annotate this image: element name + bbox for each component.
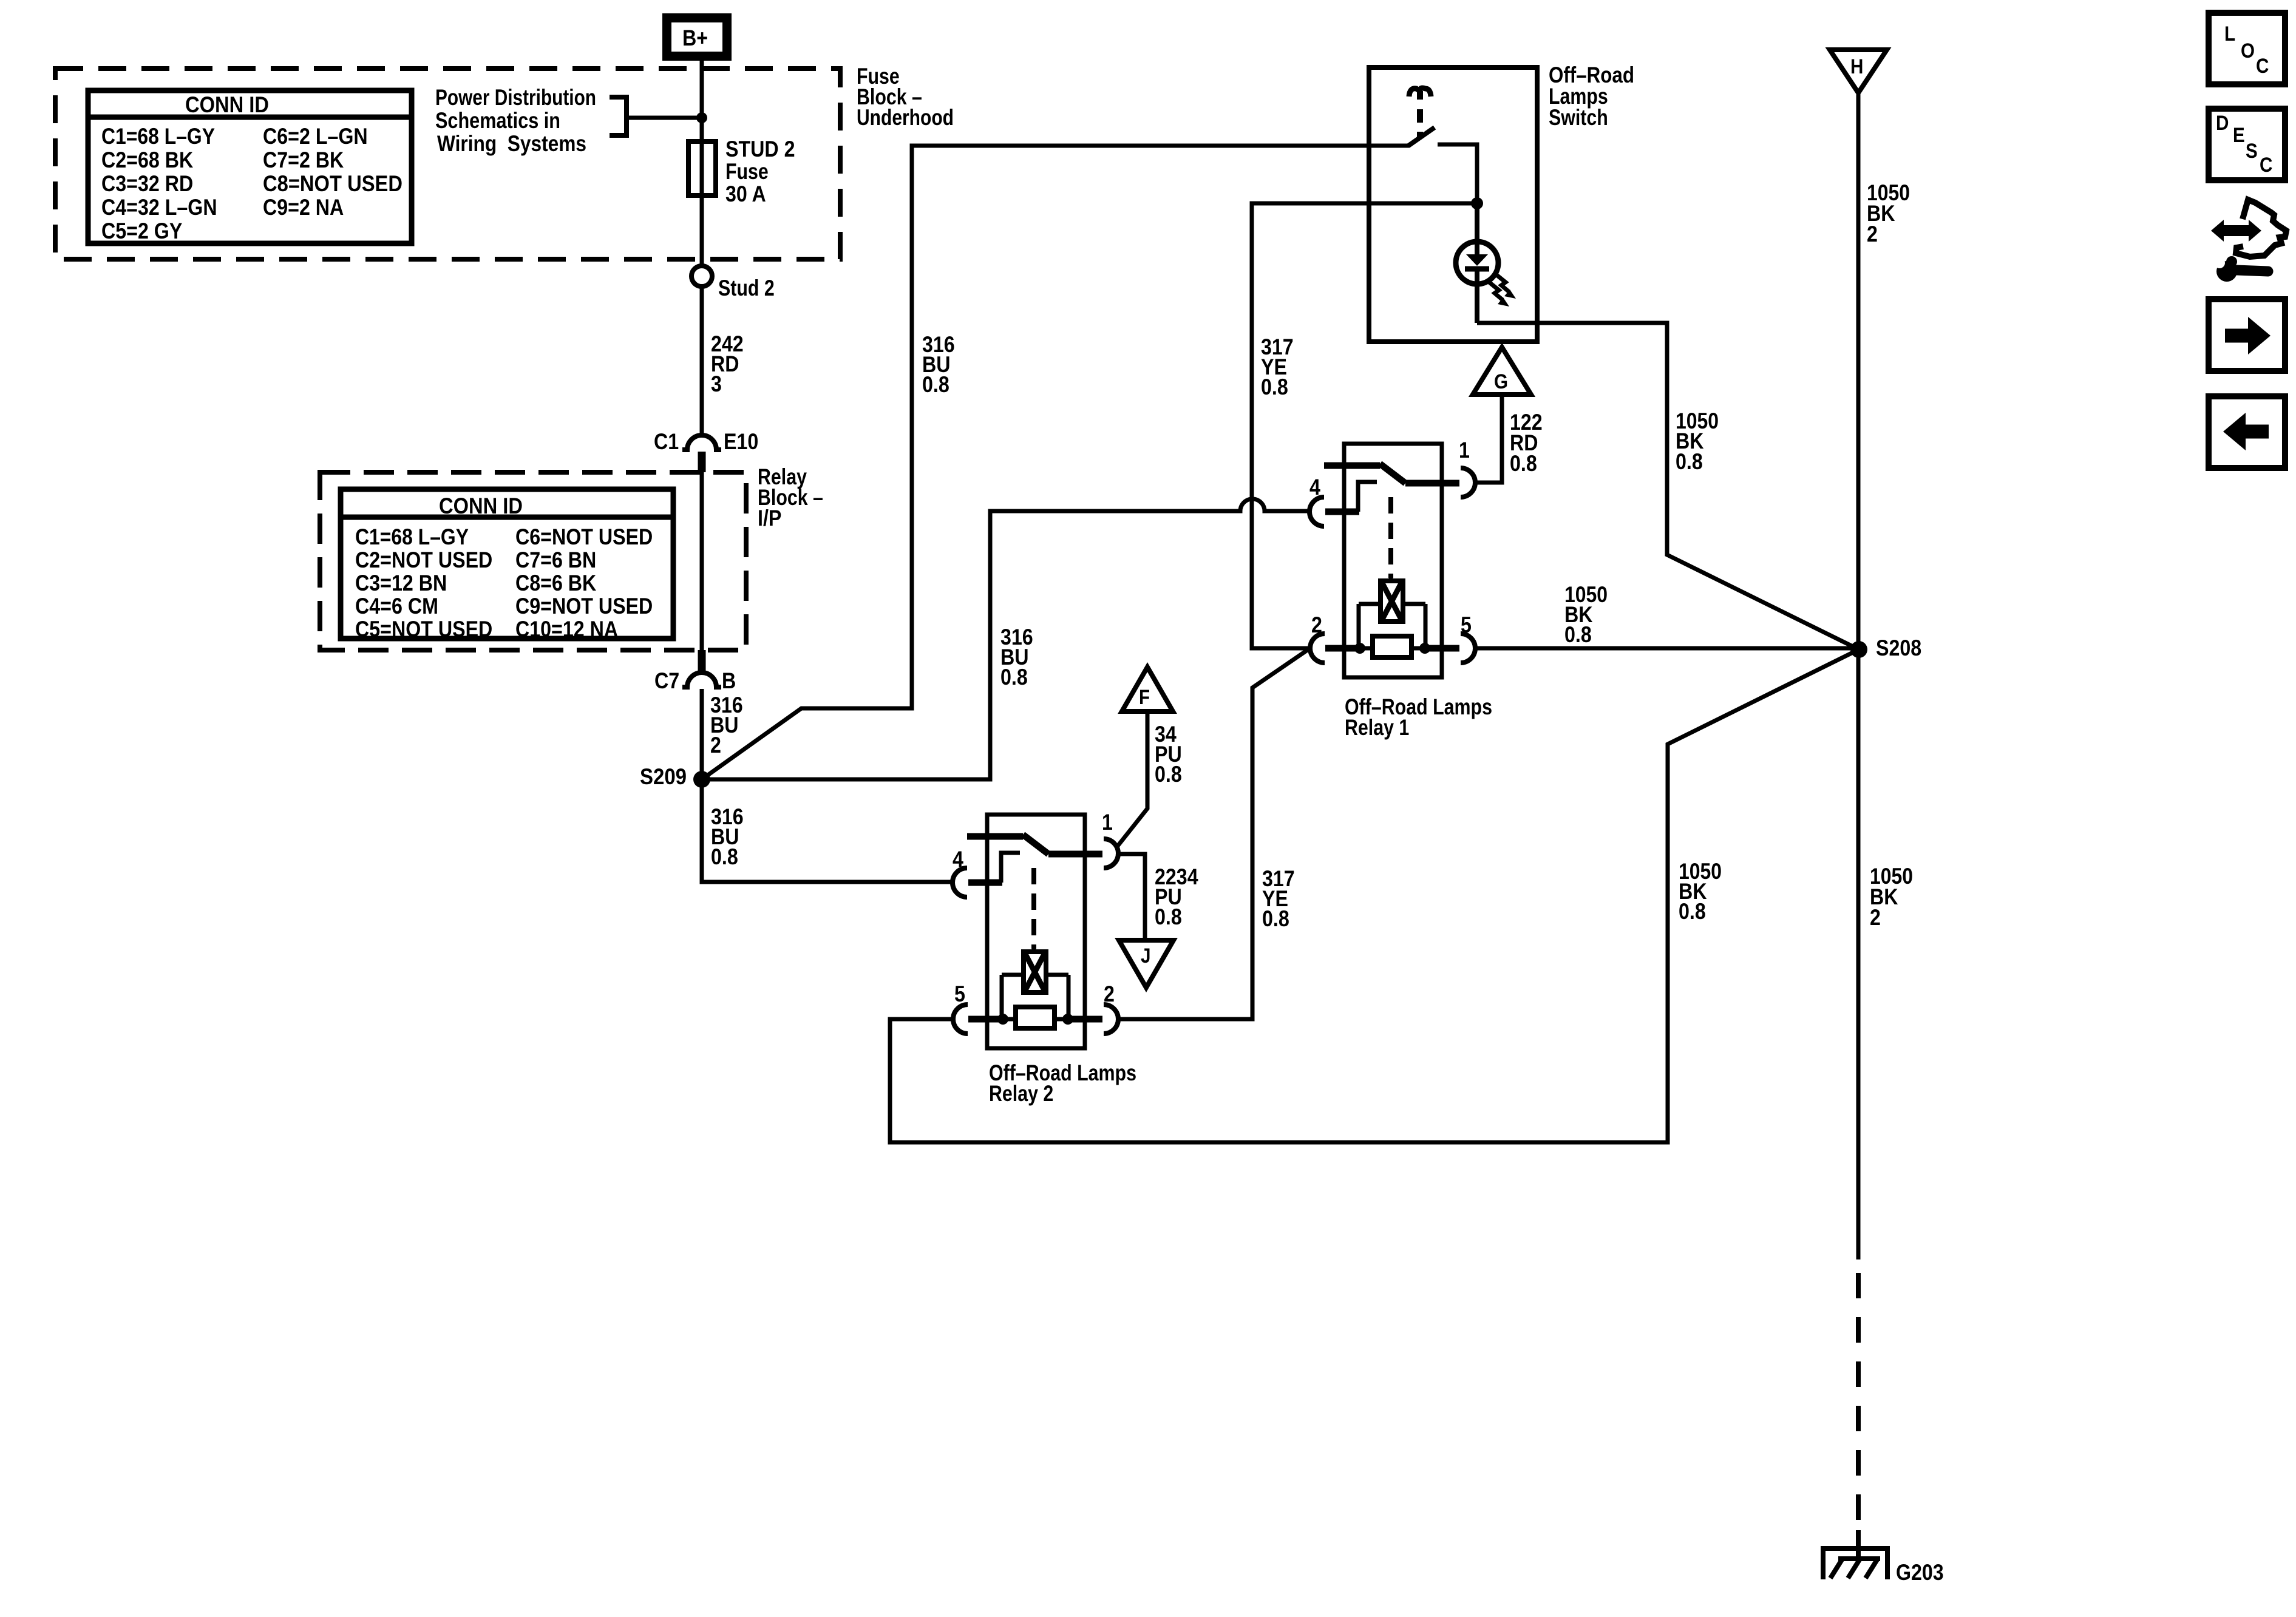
relay 2 pin 2 terminal [1104,1005,1118,1034]
svg-text:Relay 2: Relay 2 [989,1081,1053,1106]
svg-text:C8=6 BK: C8=6 BK [515,571,597,595]
relay 2 fixed contact stub [967,833,1023,840]
svg-text:4: 4 [953,847,963,872]
relay 1 pin 4 link to blade pivot [1358,482,1377,512]
wire 2234 PU 0.8 relay 2 pin 1 to J [1118,854,1145,940]
svg-text:0.8: 0.8 [1564,622,1592,647]
svg-text:S208: S208 [1876,636,1921,660]
svg-text:C3=12 BN: C3=12 BN [355,571,447,595]
icon previous-page arrow button [2209,396,2285,468]
svg-text:G: G [1494,370,1508,393]
svg-text:C1=68 L–GY: C1=68 L–GY [101,124,215,149]
svg-text:0.8: 0.8 [711,844,738,869]
svg-text:O: O [2241,39,2255,63]
relay 1 pin 4 stub [1325,509,1359,515]
relay 1 coil [1381,577,1403,622]
svg-text:CONN ID: CONN ID [439,493,523,518]
relay K2 Off-Road Lamps Relay 2 [953,810,1118,1048]
relay 1 coil dashed actuator link [1388,497,1393,578]
wire 122 RD 0.8 relay 1 pin 1 to G [1475,395,1502,483]
label 316 BU 0.8 (relay 1 feed) [1000,625,1033,690]
label 1050 BK 0.8 (switch ground) [1676,408,1719,474]
svg-text:C5=2 GY: C5=2 GY [101,219,183,243]
power distribution reference bracket [610,97,627,135]
relay 1 case [1344,444,1442,677]
relay 2 pin 4 link to blade pivot [1001,853,1020,883]
relay 2 coil [1024,947,1046,992]
label 2234 PU 0.8 [1155,864,1198,929]
connector C1 E10 half-circle terminal [682,435,721,472]
svg-text:H: H [1850,55,1863,78]
svg-text:I/P: I/P [758,506,781,531]
svg-text:0.8: 0.8 [1510,451,1537,476]
svg-text:Switch: Switch [1549,105,1608,130]
svg-text:5: 5 [1461,612,1472,637]
wire 1050 BK 0.8 relay 1 pin 5 to S208 [1475,646,1859,651]
node coil-resistor right junction [1419,643,1430,654]
svg-text:C1: C1 [654,429,679,454]
svg-text:Underhood: Underhood [857,105,954,130]
off-page triangle G [1473,347,1531,395]
svg-text:Relay 1: Relay 1 [1345,715,1409,740]
svg-text:C2=NOT USED: C2=NOT USED [355,547,492,572]
wire 317 YE 0.8 relay 1 pin 2 to relay 2 pin 2 (diagonal drop) [1118,649,1308,1019]
svg-text:C10=12 NA: C10=12 NA [515,617,618,642]
wire 316 BU 2 C7 to S209 [700,689,704,779]
wire tap to power distribution bracket [627,116,702,120]
label Relay Block - I/P [758,464,823,531]
label Off-Road Lamps Switch [1549,63,1634,130]
node coil-resistor left junction [997,1014,1008,1025]
svg-text:0.8: 0.8 [922,372,949,397]
node splice S208 [1850,641,1867,658]
svg-text:C8=NOT USED: C8=NOT USED [263,171,402,196]
svg-text:C4=32 L–GN: C4=32 L–GN [101,195,217,220]
component box Off-Road Lamps Switch [1369,67,1537,342]
table CONN ID (Relay Block - I/P) [341,489,673,642]
switch push actuator symbol [1409,88,1431,100]
svg-text:0.8: 0.8 [1261,375,1288,399]
icon component-view double arrow [2211,220,2261,242]
icon next-page arrow button [2209,299,2285,371]
relay 2 pin 1 stub [1048,851,1102,858]
connector C7 B half-circle terminal [682,650,721,687]
label 316 BU 0.8 (relay 2 feed) [711,804,744,869]
component box Fuse Block - Underhood (dashed) [55,69,840,259]
label Off-Road Lamps Relay 1 [1345,694,1492,740]
svg-text:1: 1 [1459,438,1470,463]
LED cathode bar [1465,266,1489,272]
svg-text:B: B [722,668,736,693]
svg-text:0.8: 0.8 [1262,906,1289,931]
wire LED vertical through [1475,203,1479,323]
LED emission arrows [1489,274,1516,307]
label 317 YE 0.8 (lower) [1262,866,1295,931]
wire 34 PU 0.8 F to relay 2 pin 1 [1117,711,1147,847]
wire fuse to Stud 2 terminal [700,195,704,266]
svg-text:F: F [1139,686,1150,709]
svg-text:1: 1 [1102,810,1113,835]
svg-text:G203: G203 [1896,1560,1944,1585]
label Off-Road Lamps Relay 2 [989,1060,1136,1106]
svg-text:C6=NOT USED: C6=NOT USED [515,524,653,549]
icon LOC button [2209,13,2285,84]
wire through relay block C1 to C7 [700,472,704,650]
svg-text:C7=2 BK: C7=2 BK [263,147,344,172]
label Fuse Block - Underhood [857,64,954,130]
svg-text:Wiring Systems: Wiring Systems [437,131,586,156]
icon DESC button [2209,109,2285,180]
svg-text:Stud 2: Stud 2 [718,276,775,300]
svg-text:S: S [2246,140,2258,163]
svg-text:0.8: 0.8 [1000,665,1028,690]
wire 316 BU 0.8 S209 to relay 1 pin 4 (with crossover hop) [702,499,1309,779]
label Power Distribution Schematics in Wiring Systems [435,85,596,156]
svg-text:STUD 2: STUD 2 [725,137,795,161]
switch blade contact [1408,127,1435,146]
svg-text:C9=NOT USED: C9=NOT USED [515,594,653,619]
svg-text:C1=68 L–GY: C1=68 L–GY [355,524,469,549]
node coil-resistor right junction [1062,1014,1073,1025]
relay 2 pin 4 terminal [953,868,967,897]
label 316 BU 0.8 (switch feed) [922,332,955,397]
off-page triangle J [1119,940,1173,988]
svg-text:E10: E10 [724,429,758,454]
svg-text:D: D [2216,112,2229,135]
relay 1 pin 1 terminal [1461,468,1475,497]
svg-text:2: 2 [1104,981,1115,1006]
relay 1 switch blade [1380,464,1405,483]
svg-text:C4=6 CM: C4=6 CM [355,594,438,619]
ground G203 symbol [1823,1530,1887,1579]
svg-text:4: 4 [1309,475,1320,500]
wire 1050 BK 0.8 relay 2 pin 5 to S208 [890,649,1859,1142]
svg-text:0.8: 0.8 [1155,762,1182,787]
svg-text:C9=2 NA: C9=2 NA [263,195,344,220]
label 1050 BK 2 (lower) [1870,864,1913,930]
relay 1 resistor [1360,636,1425,657]
wire 1050 BK 2 H to G203 (solid portion) [1856,93,1861,1259]
relay 1 coil parallel rails [1359,604,1425,648]
wire 1050 BK 2 dashed portion to ground [1856,1273,1861,1530]
label 1050 BK 2 (upper) [1867,180,1910,246]
svg-text:C6=2 L–GN: C6=2 L–GN [263,124,368,149]
label 34 PU 0.8 [1155,722,1182,787]
relay 2 pin 5 terminal [953,1005,968,1034]
svg-text:2: 2 [710,733,721,758]
label 317 YE 0.8 (upper) [1261,334,1294,399]
label 242 RD 3 [711,331,744,396]
wire 317 YE 0.8 switch to relay 1 pin 2 [1252,203,1477,648]
relay 1 pin 1 stub [1405,480,1459,487]
wire 1050 BK 0.8 switch to S208 [1477,323,1859,649]
label 1050 BK 0.8 (relay 1 ground) [1564,582,1608,647]
terminal Stud 2 [691,266,712,286]
node junction at power distribution tap [696,112,707,123]
svg-text:E: E [2233,124,2245,147]
relay 2 coil parallel rails [1002,975,1068,1019]
relay 1 pin 2 terminal [1310,634,1325,663]
label STUD 2 Fuse 30 A [725,137,795,206]
svg-text:Fuse: Fuse [725,159,769,184]
svg-text:2: 2 [1311,612,1322,637]
relay 1 pin 5 stub [1425,645,1459,652]
wire B+ to fuse STUD 2 [700,61,704,141]
relay 1 pin 2 stub [1325,645,1360,652]
icon component-view wrench [2214,256,2268,282]
switch actuator dashed link [1417,109,1423,137]
svg-text:C: C [2256,55,2269,78]
svg-text:J: J [1141,944,1151,968]
label 316 BU 2 [710,693,743,758]
relay 2 pin 5 stub [968,1016,1003,1023]
icon component-view part outline [2236,200,2286,257]
relay 2 switch blade [1023,835,1048,854]
svg-text:Schematics in: Schematics in [435,108,560,133]
battery feed symbol B+ [662,13,732,61]
svg-text:0.8: 0.8 [1676,449,1703,474]
relay 2 pin 4 stub [968,880,1002,886]
node splice S209 [693,771,710,788]
svg-text:C3=32 RD: C3=32 RD [101,171,193,196]
relay 2 case [987,815,1085,1048]
svg-text:3: 3 [711,371,722,396]
wire 242 RD 3 Stud 2 to C1 [700,286,704,435]
svg-text:Power Distribution: Power Distribution [435,85,596,110]
relay 2 pin 1 terminal [1104,839,1118,868]
label 122 RD 0.8 [1510,410,1543,476]
relay 2 pin 2 stub [1068,1016,1102,1023]
relay K1 Off-Road Lamps Relay 1 [1309,438,1475,677]
component box Relay Block - I/P (dashed) [320,472,746,650]
svg-text:C5=NOT USED: C5=NOT USED [355,617,492,642]
relay 2 coil dashed actuator link [1031,868,1036,949]
wire 316 BU 0.8 S209 to relay 2 pin 4 [702,779,953,882]
switch fixed contact right to LED junction [1438,144,1477,203]
svg-text:C: C [2260,154,2272,177]
LED anode triangle [1466,254,1488,266]
svg-text:C2=68 BK: C2=68 BK [101,147,193,172]
svg-text:L: L [2224,22,2235,46]
svg-text:CONN ID: CONN ID [185,92,269,117]
svg-text:0.8: 0.8 [1679,899,1706,924]
node LED tap junction [1471,197,1483,209]
fuse STUD 2 Fuse 30 A [688,141,716,195]
relay 1 pin 5 terminal [1461,634,1475,663]
svg-text:B+: B+ [682,25,708,50]
node coil-resistor left junction [1354,643,1365,654]
svg-text:2: 2 [1870,905,1881,930]
svg-text:2: 2 [1867,222,1878,246]
table CONN ID (Fuse Block - Underhood) [88,90,412,243]
svg-text:0.8: 0.8 [1155,904,1182,929]
off-page triangle H [1830,50,1887,93]
svg-text:30 A: 30 A [725,181,766,206]
indicator LED circle [1456,242,1498,284]
relay 1 pin 4 terminal [1309,497,1324,526]
svg-text:5: 5 [954,981,965,1006]
off-page triangle F [1122,667,1173,711]
svg-text:S209: S209 [640,764,687,789]
svg-text:C7=6 BN: C7=6 BN [515,547,596,572]
wire 316 BU 0.8 S209 to switch (diagonal, riser, top run) [702,146,1410,779]
label 1050 BK 0.8 (relay 2 ground) [1679,859,1722,924]
relay 1 fixed contact stub [1324,463,1380,469]
svg-text:C7: C7 [654,668,679,693]
relay 2 resistor [1003,1007,1068,1028]
